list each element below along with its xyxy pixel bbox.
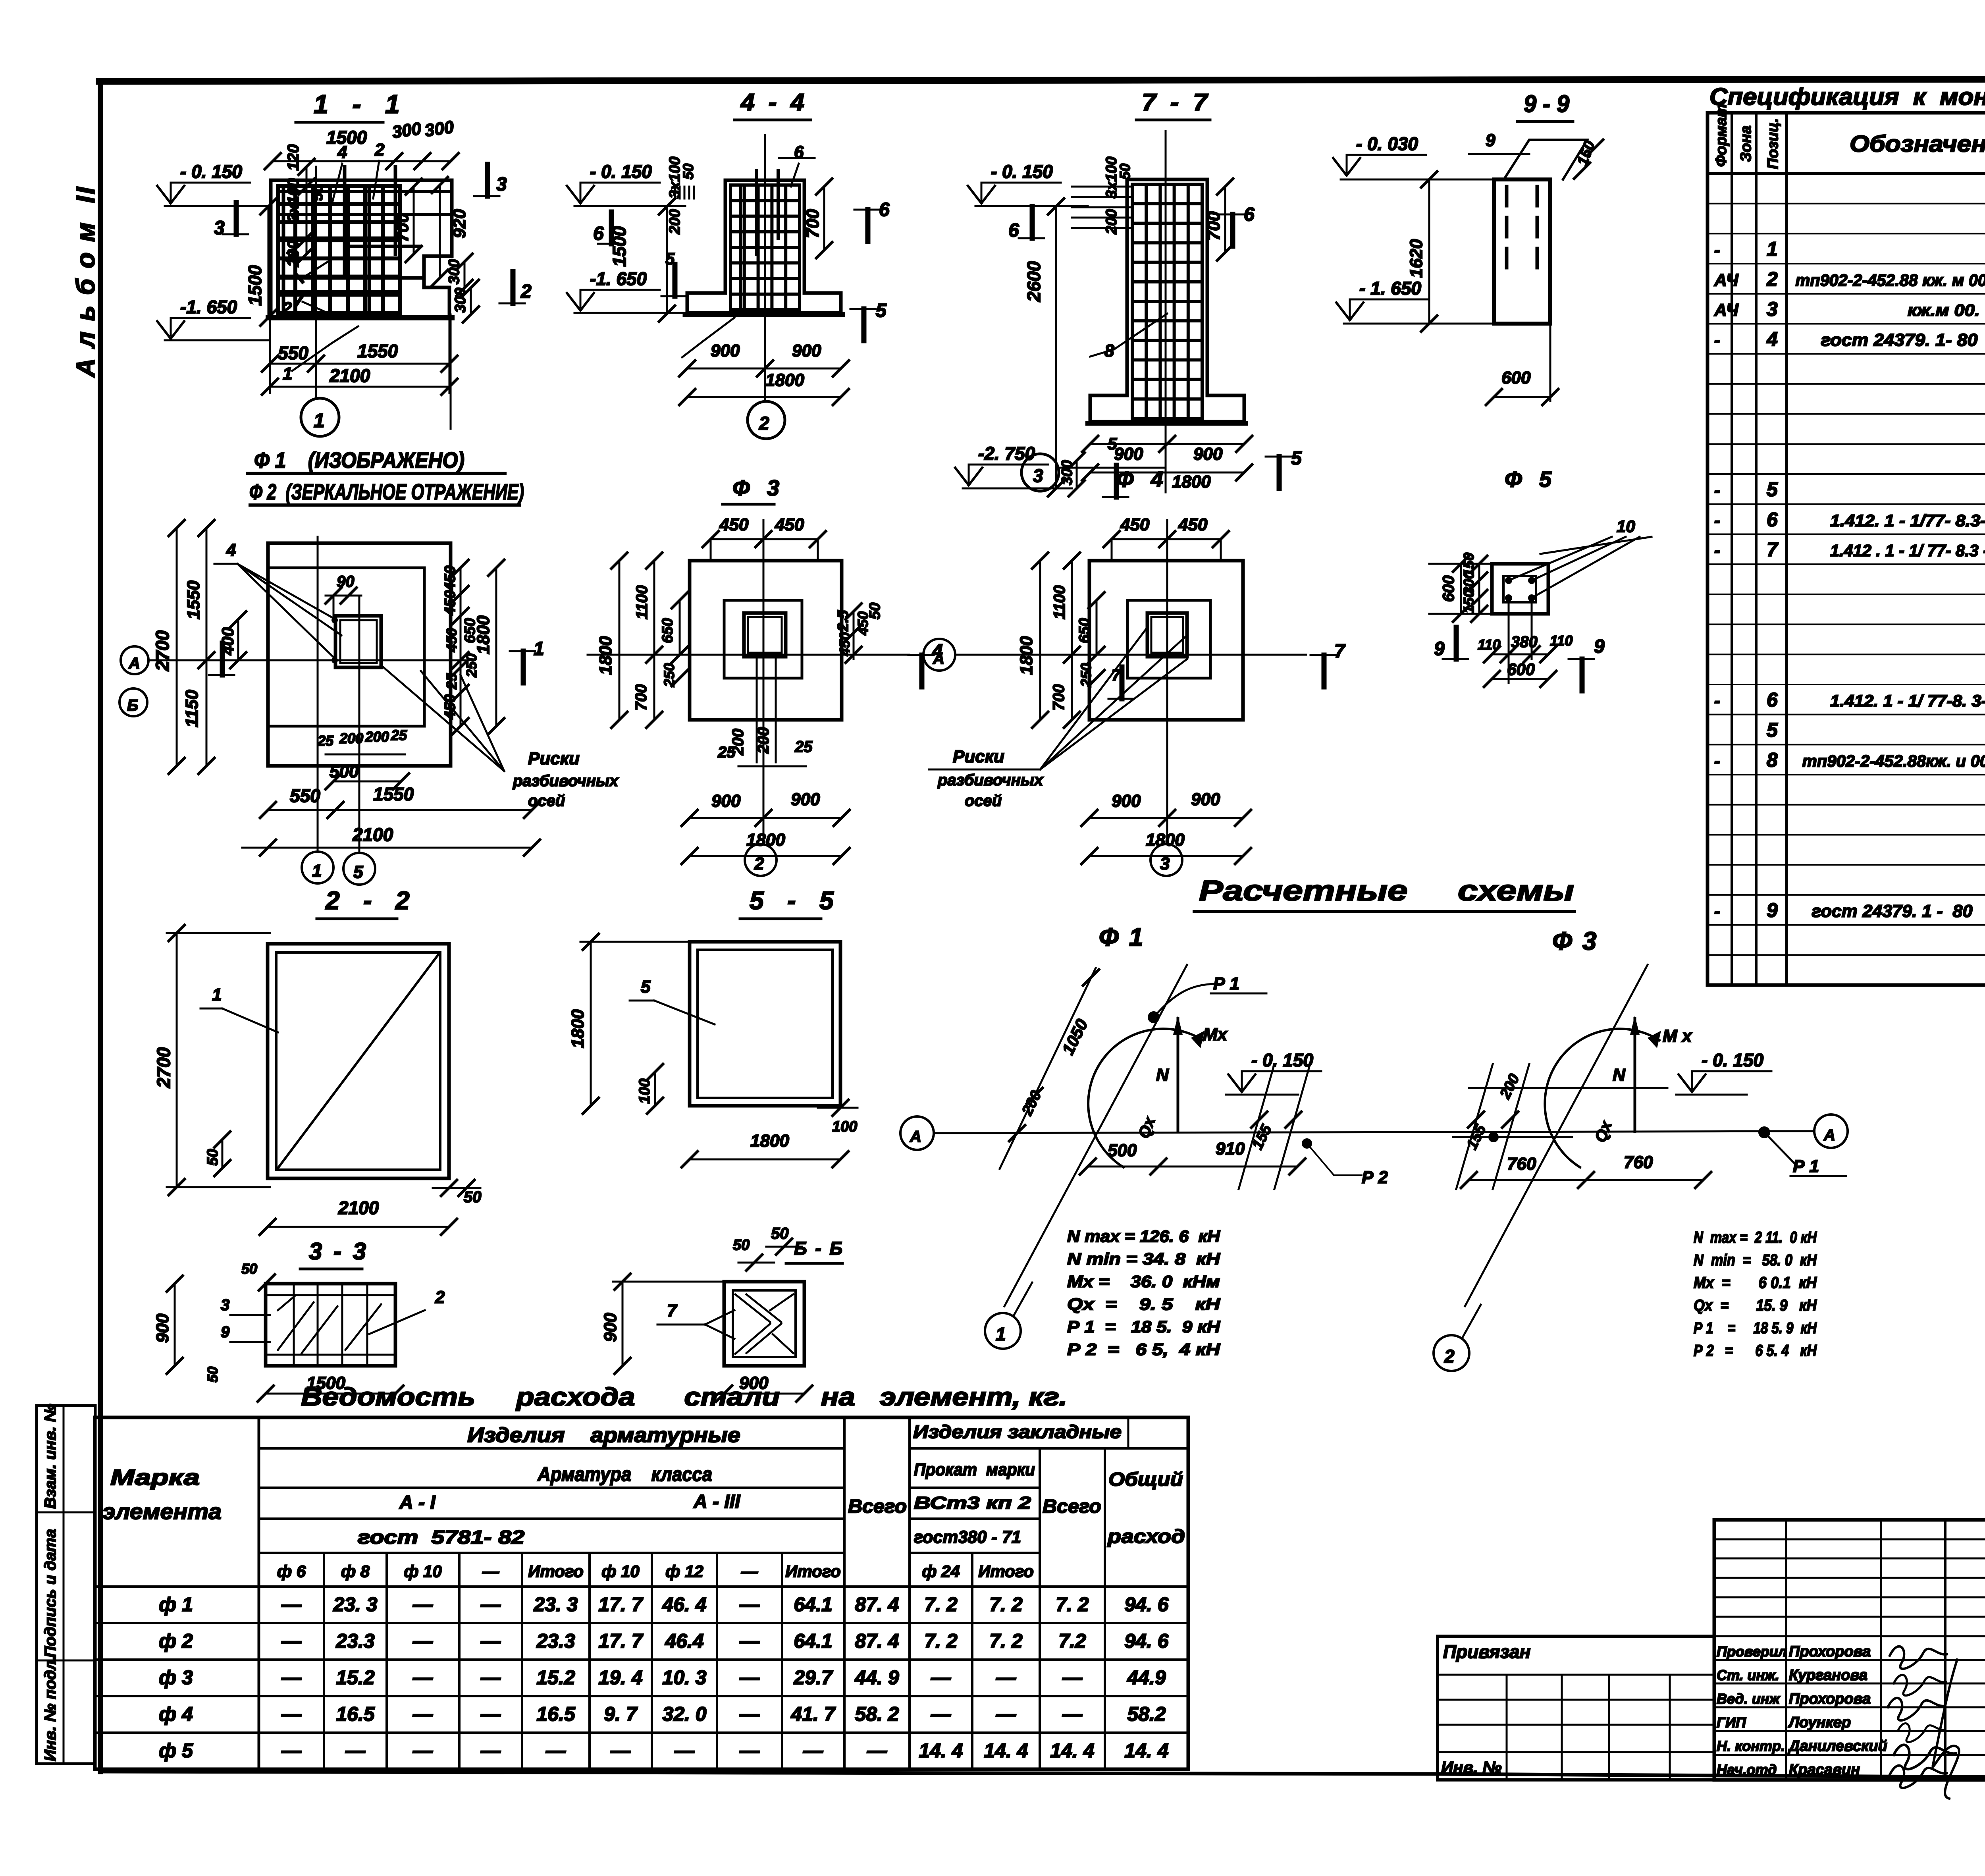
plan F3 column square (744, 613, 786, 657)
svg-text:1: 1 (1767, 238, 1778, 260)
svg-text:87. 4: 87. 4 (855, 1630, 899, 1652)
svg-text:Б - Б: Б - Б (794, 1238, 844, 1259)
spec table header row line (1707, 172, 1985, 175)
section 9-9 bolt body rectangle (1494, 179, 1550, 324)
section B-B rectangle (724, 1282, 804, 1366)
svg-text:тп902-2-452.88кж. и 00.00.05.0: тп902-2-452.88кж. и 00.00.05.00 (1802, 752, 1985, 770)
svg-text:—: — (480, 1739, 501, 1762)
svg-text:—: — (739, 1666, 760, 1689)
svg-text:Мx = 6 0.1 кН: Мx = 6 0.1 кН (1694, 1274, 1817, 1292)
svg-text:Курганова: Курганова (1789, 1667, 1867, 1684)
svg-text:Инв. № подл.: Инв. № подл. (42, 1656, 59, 1761)
section 2-2 dim 50 left bottom (222, 1139, 224, 1168)
svg-text:100: 100 (832, 1118, 857, 1135)
plan F4 top dims 450 450 (1112, 538, 1221, 540)
svg-text:- 0. 030: - 0. 030 (1356, 133, 1418, 154)
svg-text:64.1: 64.1 (794, 1630, 832, 1652)
plan F3 axis bubble 2 (745, 844, 777, 876)
svg-text:17. 7: 17. 7 (598, 1593, 643, 1616)
svg-text:1550: 1550 (357, 341, 398, 361)
section 9-9 top plate parallelogram (1504, 140, 1587, 179)
plan F5 inner square (1503, 576, 1536, 602)
svg-text:9: 9 (221, 1323, 230, 1341)
svg-text:—: — (996, 1666, 1016, 1689)
svg-text:1: 1 (534, 638, 544, 659)
svg-text:Обозначение: Обозначение (1850, 131, 1985, 157)
svg-text:450: 450 (442, 590, 459, 616)
plan F4 left dims 1800 1100 650 250 700 (1039, 561, 1041, 720)
svg-text:3: 3 (285, 247, 294, 266)
spec table column lines (1731, 113, 1733, 985)
section 3-3 rectangle (266, 1284, 395, 1366)
steel table outer frame (95, 1417, 1188, 1769)
section 5-5 left dim 1800 (590, 942, 592, 1106)
svg-text:6: 6 (794, 143, 804, 162)
svg-text:ф 12: ф 12 (665, 1562, 703, 1581)
svg-text:—: — (412, 1593, 433, 1616)
svg-text:3: 3 (214, 218, 225, 239)
svg-text:-: - (1714, 541, 1720, 560)
svg-text:осей: осей (965, 792, 1002, 810)
svg-text:2: 2 (1766, 268, 1778, 290)
section 7-7 centerline (1165, 131, 1167, 492)
svg-text:3: 3 (1033, 465, 1043, 486)
plan F1 axis bubbles 1 and 5 (302, 852, 333, 883)
svg-text:14. 4: 14. 4 (1124, 1739, 1168, 1762)
scheme F1 main diagonal axis (1004, 965, 1187, 1306)
svg-text:300: 300 (424, 117, 455, 141)
svg-text:9: 9 (1486, 131, 1495, 150)
svg-text:1: 1 (996, 1324, 1006, 1344)
scheme F3 load point on axis (1488, 1132, 1499, 1142)
svg-text:—: — (867, 1739, 887, 1762)
scheme F3 bottom dim 760 760 (1469, 1179, 1703, 1181)
plan F1 column square (335, 616, 381, 667)
svg-text:N min = 58. 0 кН: N min = 58. 0 кН (1694, 1251, 1817, 1269)
svg-text:—: — (739, 1630, 760, 1652)
svg-text:—: — (674, 1739, 695, 1762)
svg-text:гост 24379. 1- 80: гост 24379. 1- 80 (1821, 330, 1978, 350)
svg-text:-: - (1714, 330, 1720, 350)
scheme F1 crossing axis right (1239, 1064, 1274, 1189)
svg-text:6: 6 (593, 223, 604, 244)
svg-text:760: 760 (1507, 1154, 1536, 1174)
svg-text:—: — (345, 1739, 366, 1762)
section 7-7 small dim 300 (1076, 461, 1078, 488)
svg-text:300: 300 (391, 119, 423, 142)
svg-text:1550: 1550 (373, 784, 414, 804)
svg-text:1: 1 (212, 985, 222, 1005)
section 4-4 centerline (764, 135, 766, 401)
svg-text:А: А (933, 650, 944, 667)
svg-text:4: 4 (337, 143, 347, 162)
section 1-1 datum -0.150 (171, 182, 250, 184)
svg-text:2: 2 (1444, 1346, 1455, 1367)
svg-text:1.412. 1 - 1/ 77-8. 3- 020: 1.412. 1 - 1/ 77-8. 3- 020 (1830, 692, 1985, 710)
svg-text:200: 200 (339, 730, 363, 746)
svg-text:1: 1 (314, 409, 325, 432)
section 4-4 datum -1.650 (580, 289, 660, 291)
plan F3 centerlines (763, 520, 765, 842)
svg-text:920: 920 (450, 209, 469, 238)
plan F1 axis bubble A (121, 646, 148, 674)
svg-text:N: N (1156, 1065, 1169, 1085)
svg-text:Мx = 36. 0 кНм: Мx = 36. 0 кНм (1067, 1272, 1220, 1291)
svg-text:50: 50 (241, 1261, 257, 1277)
svg-text:380: 380 (1511, 633, 1538, 651)
svg-text:7: 7 (1334, 641, 1346, 662)
svg-text:1800: 1800 (750, 1131, 789, 1151)
axis A bubble left (900, 1116, 934, 1150)
svg-text:2: 2 (435, 1288, 445, 1307)
svg-text:- 1. 650: - 1. 650 (1359, 278, 1421, 299)
plan F1 section marks T1 (521, 651, 526, 683)
plan F1 middle rectangle (268, 568, 424, 726)
svg-text:- 0. 150: - 0. 150 (1251, 1050, 1313, 1070)
svg-text:—: — (1062, 1666, 1083, 1689)
svg-text:29.7: 29.7 (793, 1666, 833, 1689)
svg-text:760: 760 (1624, 1153, 1653, 1172)
svg-text:9: 9 (1434, 638, 1445, 659)
svg-text:700: 700 (393, 213, 412, 242)
svg-text:-: - (1714, 240, 1720, 260)
svg-text:41. 7: 41. 7 (790, 1703, 836, 1725)
title block revision grid verticals (1785, 1520, 1787, 1780)
plan F4 axis bubble 3 (1151, 844, 1182, 876)
svg-text:тп902-2-452.88 кж. м 00.00.01.: тп902-2-452.88 кж. м 00.00.01.00 (1796, 271, 1985, 289)
svg-text:А: А (910, 1128, 921, 1145)
plan F1 bottom dims 550 1550 2100 (268, 809, 532, 811)
section 7-7 footing thick bottom (1088, 421, 1246, 426)
svg-text:гост 24379. 1 - 80: гост 24379. 1 - 80 (1812, 902, 1973, 921)
section B-B inner rectangle (733, 1290, 796, 1357)
section 4-4 left dim 1500 (666, 206, 668, 314)
section 7-7 column mesh (1131, 184, 1134, 418)
svg-text:ф 5: ф 5 (159, 1739, 193, 1762)
svg-text:ф 10: ф 10 (601, 1562, 640, 1581)
svg-text:P 1 = 18 5. 9 кН: P 1 = 18 5. 9 кН (1067, 1317, 1221, 1336)
svg-text:10. 3: 10. 3 (662, 1666, 706, 1689)
svg-text:Привязан: Привязан (1443, 1641, 1530, 1662)
svg-text:—: — (412, 1703, 433, 1725)
steel table header verticals (843, 1417, 846, 1769)
section 7-7 section mark 6 left (1030, 206, 1035, 238)
svg-text:—: — (610, 1739, 631, 1762)
scheme F1 axis bubble 1 (985, 1313, 1021, 1349)
svg-text:900: 900 (711, 341, 740, 361)
svg-text:23.3: 23.3 (335, 1630, 375, 1652)
svg-text:910: 910 (1216, 1139, 1245, 1159)
privyazan block frame (1438, 1636, 1714, 1780)
svg-text:58.2: 58.2 (1127, 1703, 1166, 1725)
section 4-4 right dim 700 (823, 187, 825, 250)
svg-text:А - I: А - I (399, 1492, 436, 1513)
section 1-1 axis bubble 1 (301, 398, 339, 436)
svg-text:5: 5 (1767, 478, 1778, 501)
svg-text:—: — (281, 1630, 302, 1652)
svg-text:14. 4: 14. 4 (1050, 1739, 1094, 1762)
svg-text:600: 600 (1501, 368, 1531, 388)
svg-text:осей: осей (528, 792, 565, 810)
scheme F1 datum -0.150 (1242, 1070, 1321, 1072)
svg-text:—: — (281, 1739, 302, 1762)
svg-text:1.412 . 1 - 1/ 77- 8.3 - 100: 1.412 . 1 - 1/ 77- 8.3 - 100 (1830, 541, 1985, 560)
section 9-9 bottom dim 600 (1494, 396, 1550, 398)
svg-text:P 2: P 2 (1362, 1168, 1388, 1187)
svg-text:гост 5781- 82: гост 5781- 82 (358, 1527, 524, 1548)
spec table row lines (1707, 203, 1985, 204)
svg-text:1 - 1: 1 - 1 (314, 89, 403, 119)
svg-text:ф 1: ф 1 (159, 1593, 193, 1616)
svg-text:М x: М x (1663, 1026, 1692, 1046)
svg-text:5: 5 (353, 862, 363, 882)
scheme F1 force N arrow (1177, 1018, 1179, 1132)
plan F1 axis bubble B (119, 688, 147, 716)
svg-text:58. 2: 58. 2 (855, 1703, 899, 1725)
svg-text:87. 4: 87. 4 (855, 1593, 899, 1616)
svg-text:3x100: 3x100 (285, 178, 302, 222)
scheme F3 axis bubble 2 (1434, 1335, 1469, 1371)
section 4-4 column mesh (729, 185, 732, 310)
svg-text:Спецификация к монолитным: Спецификация к монолитным фундаментам (1709, 83, 1985, 110)
svg-text:ф 6: ф 6 (277, 1562, 306, 1581)
section 4-4 section mark 6 right (865, 210, 871, 241)
svg-text:3: 3 (496, 174, 507, 195)
svg-text:44.9: 44.9 (1127, 1666, 1166, 1689)
svg-text:700: 700 (1050, 684, 1068, 711)
svg-text:N max = 126. 6 кН: N max = 126. 6 кН (1067, 1227, 1221, 1246)
svg-text:8: 8 (1767, 749, 1778, 771)
svg-text:4 - 4: 4 - 4 (740, 89, 804, 116)
svg-text:—: — (281, 1703, 302, 1725)
svg-text:ГИП: ГИП (1717, 1714, 1746, 1731)
svg-text:150: 150 (1461, 590, 1477, 613)
svg-text:-: - (1714, 511, 1720, 530)
svg-text:14. 4: 14. 4 (919, 1739, 963, 1762)
svg-text:—: — (412, 1739, 433, 1762)
svg-text:Ф 5: Ф 5 (1505, 467, 1553, 492)
plan F3 bottom dims 900 900 1800 (690, 817, 842, 819)
section 9-9 dashed bolts (1505, 187, 1509, 270)
svg-text:Ф 3: Ф 3 (732, 475, 781, 500)
section 7-7 left dim 2600 (1055, 206, 1057, 488)
svg-text:гост380 - 71: гост380 - 71 (914, 1527, 1021, 1547)
svg-text:2600: 2600 (1023, 261, 1044, 302)
svg-text:2: 2 (759, 413, 769, 434)
svg-text:2100: 2100 (338, 1197, 379, 1218)
svg-text:—: — (996, 1703, 1016, 1725)
svg-text:2: 2 (754, 854, 764, 873)
svg-text:P 2 = 6 5, 4 кН: P 2 = 6 5, 4 кН (1067, 1340, 1221, 1359)
svg-text:Ф 1: Ф 1 (1099, 923, 1145, 951)
section 4-4 bottom dims 900 900 1800 (687, 368, 841, 370)
svg-text:-: - (1714, 902, 1720, 921)
svg-text:—: — (545, 1739, 566, 1762)
svg-text:450: 450 (1178, 515, 1208, 534)
section 1-1 right dims 300 300 (464, 262, 466, 288)
plan F3 outer rectangle (690, 561, 842, 720)
svg-text:расход: расход (1107, 1526, 1185, 1547)
svg-text:Н. контр.: Н. контр. (1717, 1738, 1785, 1754)
svg-text:АЧ: АЧ (1714, 270, 1739, 290)
svg-text:1100: 1100 (633, 585, 651, 619)
axis A line (934, 1131, 1814, 1133)
svg-text:6: 6 (1008, 220, 1019, 241)
svg-text:25: 25 (443, 673, 460, 690)
svg-text:—: — (739, 1739, 760, 1762)
section 7-7 section mark 6 right (1230, 214, 1235, 246)
svg-text:ф 4: ф 4 (159, 1703, 193, 1725)
svg-text:500: 500 (1108, 1141, 1137, 1160)
plan F4 outer rectangle (1089, 561, 1243, 720)
section 7-7 column outline (1090, 179, 1244, 422)
svg-text:ф 8: ф 8 (341, 1562, 370, 1581)
svg-text:Итого: Итого (528, 1562, 584, 1581)
plan F5 outer square (1492, 564, 1548, 614)
section 7-7 bottom dims 900 900 1800 (1090, 443, 1244, 445)
svg-text:1: 1 (283, 364, 292, 384)
svg-text:10: 10 (1617, 517, 1635, 536)
svg-text:разбивочных: разбивочных (937, 771, 1044, 789)
svg-text:А - III: А - III (693, 1491, 741, 1512)
svg-text:7 - 7: 7 - 7 (1142, 89, 1208, 116)
plan F1 dim 500 (333, 781, 401, 783)
svg-text:Прокат марки: Прокат марки (914, 1460, 1035, 1479)
svg-text:Марка: Марка (110, 1465, 200, 1490)
section 4-4 section mark 5 right (861, 309, 867, 341)
plan F4 bottom dims 900 900 1800 (1089, 817, 1243, 819)
section 1-1 section mark 3 right (485, 164, 490, 196)
svg-text:200: 200 (365, 729, 389, 745)
svg-text:Итого: Итого (978, 1562, 1034, 1581)
section 4-4 footing slab thick line (685, 312, 842, 317)
svg-text:—: — (480, 1666, 501, 1689)
svg-text:32. 0: 32. 0 (662, 1703, 706, 1725)
svg-text:—: — (1062, 1703, 1083, 1725)
svg-text:Расчетные схемы: Расчетные схемы (1199, 875, 1574, 907)
svg-text:-1. 650: -1. 650 (590, 268, 647, 289)
plan F1 centerlines (317, 537, 319, 852)
svg-text:900: 900 (1193, 444, 1223, 464)
scheme F3 main diagonal axis (1465, 965, 1648, 1306)
section 2-2 left dim 2700 (176, 933, 178, 1187)
plan F1 left dims 2700 1550 1150 400 (176, 528, 178, 766)
svg-text:7. 2: 7. 2 (989, 1593, 1023, 1616)
svg-text:2100: 2100 (329, 365, 370, 386)
svg-text:200: 200 (729, 729, 747, 756)
svg-text:1800: 1800 (568, 1009, 588, 1048)
svg-text:25: 25 (794, 738, 813, 756)
svg-text:3: 3 (1767, 298, 1778, 320)
title block revision grid horizontals (1714, 1539, 1985, 1541)
svg-text:ф 2: ф 2 (159, 1630, 193, 1652)
svg-text:9: 9 (1767, 899, 1778, 922)
plan F3 top dims 450 450 (711, 538, 818, 540)
svg-text:2700: 2700 (152, 630, 173, 671)
svg-text:Проверил: Проверил (1717, 1643, 1787, 1660)
svg-text:—: — (281, 1593, 302, 1616)
svg-text:7. 2: 7. 2 (1056, 1593, 1089, 1616)
title block outer frame (1714, 1520, 1985, 1780)
svg-text:450: 450 (1120, 515, 1150, 534)
plan F5 hatch leader to 10 (1509, 537, 1612, 580)
section 3-3 hatch (278, 1302, 314, 1350)
svg-text:1800: 1800 (765, 370, 804, 390)
svg-text:15.2: 15.2 (536, 1666, 575, 1689)
svg-text:50: 50 (204, 1149, 221, 1166)
svg-text:Нач.отд: Нач.отд (1717, 1762, 1777, 1778)
svg-text:450: 450 (775, 515, 804, 534)
svg-text:450: 450 (836, 632, 853, 656)
svg-text:5 - 5: 5 - 5 (750, 886, 837, 915)
svg-text:16.5: 16.5 (336, 1703, 375, 1725)
section 4-4 datum -0.150 (580, 182, 660, 184)
section 4-4 leader 7 bottom (703, 318, 734, 341)
svg-text:Всего: Всего (848, 1496, 907, 1517)
plan F3 section mark 4 (919, 655, 925, 687)
plan F3 middle rectangle (724, 600, 802, 678)
svg-text:N: N (1613, 1065, 1626, 1085)
svg-text:900: 900 (1191, 790, 1220, 809)
svg-text:Ф 2 (ЗЕРКАЛЬНОЕ ОТРАЖЕНИЕ): Ф 2 (ЗЕРКАЛЬНОЕ ОТРАЖЕНИЕ) (249, 479, 524, 504)
svg-text:Арматура класса: Арматура класса (537, 1463, 712, 1485)
svg-text:64.1: 64.1 (794, 1593, 832, 1616)
section 2-2 outer rectangle (268, 944, 449, 1178)
section B-B left dim 900 (622, 1282, 624, 1366)
section 1-1 reinforcement mesh (276, 186, 280, 313)
svg-text:- 0. 150: - 0. 150 (180, 161, 242, 182)
section 9-9 datum -1.650 (1350, 299, 1429, 301)
svg-text:900: 900 (792, 341, 821, 361)
svg-text:- 0. 150: - 0. 150 (1702, 1050, 1763, 1070)
svg-text:9 - 9: 9 - 9 (1524, 91, 1570, 117)
svg-text:16.5: 16.5 (536, 1703, 576, 1725)
svg-text:50: 50 (680, 164, 696, 179)
svg-text:P 1: P 1 (1213, 974, 1239, 993)
svg-text:4: 4 (226, 540, 236, 560)
svg-text:100: 100 (636, 1079, 653, 1104)
svg-text:элемента: элемента (102, 1499, 222, 1524)
svg-text:ф 3: ф 3 (159, 1666, 193, 1689)
svg-text:1800: 1800 (1017, 636, 1036, 675)
svg-text:550: 550 (278, 343, 308, 363)
svg-text:—: — (931, 1703, 951, 1725)
svg-text:А л ь б о м II: А л ь б о м II (71, 185, 100, 378)
svg-text:1500: 1500 (609, 226, 630, 267)
plan F5 section marks 9 (1454, 627, 1459, 659)
section 4-4 top bars hooks (755, 171, 758, 254)
svg-text:650: 650 (462, 618, 478, 643)
svg-text:23. 3: 23. 3 (333, 1593, 377, 1616)
section 9-9 vertical dim 1620 (1428, 179, 1430, 324)
section 1-1 bottom dims 550 1550 2100 (270, 363, 449, 365)
svg-text:Красавин: Красавин (1789, 1762, 1860, 1778)
svg-text:Зона: Зона (1738, 125, 1754, 162)
section 1-1 bottom slab thick line (268, 315, 452, 320)
svg-text:-: - (1714, 751, 1720, 771)
steel table sub verticals (323, 1553, 325, 1769)
svg-text:Ф 1 (ИЗОБРАЖЕНО): Ф 1 (ИЗОБРАЖЕНО) (254, 447, 464, 472)
svg-text:Прохорова: Прохорова (1789, 1643, 1871, 1660)
svg-text:—: — (480, 1593, 501, 1616)
section 9-9 datum -0.030 (1347, 154, 1426, 156)
section 7-7 top hatch lines (1072, 186, 1131, 188)
scheme F3 crossing axis left (1456, 1064, 1493, 1189)
title block signatures (1890, 1647, 1947, 1669)
svg-text:650: 650 (659, 618, 676, 643)
svg-text:—: — (482, 1562, 499, 1581)
svg-text:Данилевский: Данилевский (1788, 1738, 1887, 1755)
